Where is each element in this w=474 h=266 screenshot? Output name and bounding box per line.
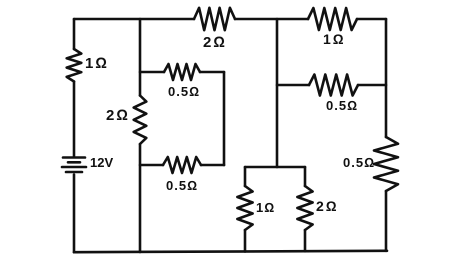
wire: bottom sub-circuit right drop lower bbox=[304, 230, 307, 251]
wire: bottom sub-circuit left drop upper bbox=[244, 167, 247, 186]
svg-text:1Ω: 1Ω bbox=[256, 200, 275, 215]
svg-text:1Ω: 1Ω bbox=[85, 55, 109, 72]
resistor 0.5Ω (inner loop top, horizontal) bbox=[164, 64, 200, 80]
wire: inner loop bottom-left segment bbox=[140, 164, 163, 167]
svg-text:0.5Ω: 0.5Ω bbox=[343, 155, 375, 170]
label 2Ω (top middle resistor value) bbox=[203, 34, 227, 51]
svg-text:0.5Ω: 0.5Ω bbox=[326, 98, 358, 113]
svg-text:2Ω: 2Ω bbox=[106, 107, 130, 124]
wire: inner loop right vertical bbox=[223, 72, 226, 165]
wire: left rail middle segment bbox=[73, 82, 76, 157]
svg-text:2Ω: 2Ω bbox=[316, 198, 339, 214]
svg-text:0.5Ω: 0.5Ω bbox=[166, 178, 198, 193]
wire: center vertical (top rail to bottom bar) bbox=[276, 19, 279, 167]
wire: right rail lower segment bbox=[385, 191, 388, 251]
resistor 2Ω (mid-left, vertical) bbox=[134, 96, 147, 145]
wire: bottom rail bbox=[74, 251, 387, 252]
wire: bottom sub-circuit top bar bbox=[245, 166, 305, 169]
svg-text:1Ω: 1Ω bbox=[323, 31, 346, 47]
label 2Ω (bottom right resistor value) bbox=[316, 198, 339, 214]
label 1Ω (bottom left resistor value) bbox=[256, 200, 275, 215]
label 1Ω (top right resistor value) bbox=[323, 31, 346, 47]
resistor 0.5Ω (inner loop bottom, horizontal) bbox=[163, 157, 201, 173]
wire: bottom sub-circuit right drop upper bbox=[304, 167, 307, 186]
wire: inner loop top-right segment bbox=[200, 71, 224, 74]
wire: top rail right segment bbox=[357, 18, 386, 21]
wire: mid-left vertical lower segment bbox=[139, 144, 142, 252]
resistor 1Ω (bottom middle left, vertical) bbox=[237, 186, 252, 230]
label 1Ω (left resistor value) bbox=[85, 55, 109, 72]
resistor 1Ω (top right, horizontal) bbox=[308, 8, 357, 30]
label 0.5Ω (inner bottom resistor value) bbox=[166, 178, 198, 193]
wire: mid-left vertical upper segment bbox=[139, 19, 142, 96]
wire: top rail left segment bbox=[74, 18, 194, 21]
label 2Ω (mid-left resistor value) bbox=[106, 107, 130, 124]
label 0.5Ω (right middle resistor value) bbox=[326, 98, 358, 113]
resistor 2Ω (bottom middle right, vertical) bbox=[297, 186, 312, 230]
wire: inner loop top-left segment bbox=[140, 71, 164, 74]
wire: right rail upper segment bbox=[385, 19, 388, 137]
resistor 1Ω (left, vertical) bbox=[67, 49, 82, 82]
svg-text:0.5Ω: 0.5Ω bbox=[168, 84, 200, 99]
resistor 2Ω (top middle, horizontal) bbox=[194, 8, 235, 30]
battery 12V bbox=[62, 158, 86, 173]
wire: right-middle horizontal left segment bbox=[277, 84, 309, 87]
resistor 0.5Ω (far right, vertical) bbox=[374, 137, 398, 191]
wire: left rail upper segment bbox=[73, 19, 76, 49]
wire: top rail middle segment bbox=[235, 18, 308, 21]
label 0.5Ω (inner top resistor value) bbox=[168, 84, 200, 99]
svg-text:12V: 12V bbox=[90, 155, 113, 170]
svg-text:2Ω: 2Ω bbox=[203, 34, 227, 51]
label 0.5Ω (far right resistor value) bbox=[343, 155, 375, 170]
wire: left rail lower segment bbox=[73, 175, 76, 253]
wire: right-middle horizontal right segment bbox=[358, 84, 386, 87]
wire: bottom sub-circuit left drop lower bbox=[244, 230, 247, 252]
label 12V (battery value) bbox=[90, 155, 113, 170]
wire: inner loop bottom-right segment bbox=[201, 164, 224, 167]
resistor 0.5Ω (right middle, horizontal) bbox=[309, 75, 358, 96]
